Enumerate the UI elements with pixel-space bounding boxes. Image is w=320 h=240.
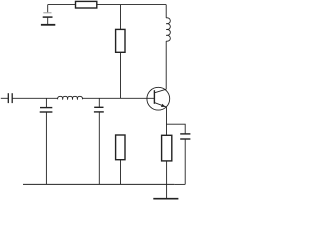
wire top-right drop to L1: [165, 5, 167, 18]
inductor L1 (vertical coil): [166, 18, 170, 41]
wire signal right segment to base: [82, 97, 154, 99]
resistor R3 (lower bias resistor): [116, 135, 125, 160]
wire C5 to ground rail: [184, 139, 186, 184]
capacitor C1 (top-left bypass cap): [43, 5, 53, 25]
wire R2 bottom lead to base node: [120, 52, 122, 98]
wire L1 to collector: [165, 41, 167, 89]
wire C3 to ground rail: [45, 112, 47, 184]
wire ground rail: [23, 183, 174, 185]
capacitor C2 (input coupling): [1, 93, 12, 103]
capacitor C5 (emitter bypass): [180, 134, 190, 139]
wire signal left segment: [12, 97, 57, 99]
wire R4 bottom lead: [166, 161, 168, 185]
wire top supply rail: [48, 4, 167, 6]
transistor Q1 (NPN): [147, 87, 170, 110]
wire rail link to C5: [174, 183, 185, 185]
wire C4 to ground rail: [98, 112, 100, 184]
resistor R2 (upper bias resistor): [116, 29, 125, 52]
capacitor C4 (tank cap, right column): [94, 98, 104, 112]
resistor R4 (emitter resistor): [162, 135, 172, 161]
ground symbol (bottom): [153, 184, 178, 198]
resistor R1 (horizontal, top): [76, 1, 97, 8]
wire R3 bottom lead: [120, 160, 122, 185]
ground bar (top-left): [41, 24, 55, 26]
wire R2 top lead: [120, 5, 122, 30]
wire branch to C5: [167, 124, 186, 133]
capacitor C3 (tank cap, left column): [40, 98, 53, 112]
wire emitter down to R4: [166, 107, 168, 135]
inductor L2 (horizontal coil): [58, 96, 83, 99]
